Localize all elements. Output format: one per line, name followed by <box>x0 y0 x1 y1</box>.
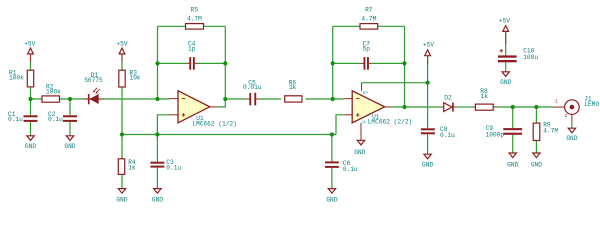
capacitor C8 <box>421 126 455 139</box>
resistor R1 <box>9 70 34 87</box>
wire C6 bottom to ground <box>331 168 333 189</box>
wire R8 to J1 <box>497 106 553 108</box>
svg-text:2: 2 <box>565 113 568 119</box>
resistor R4 <box>118 159 136 175</box>
svg-text:GND: GND <box>566 135 577 142</box>
ground C3 <box>152 189 163 204</box>
capacitor C7 <box>363 40 371 69</box>
pin lead C7 right <box>369 62 372 64</box>
svg-text:GND: GND <box>354 149 365 156</box>
junction node bias R4 <box>120 132 124 136</box>
svg-text:1k: 1k <box>128 165 136 172</box>
junction node C7 right <box>402 61 406 65</box>
svg-text:1k: 1k <box>289 84 297 91</box>
resistor R6 <box>285 79 302 102</box>
svg-text:0.1u: 0.1u <box>166 165 181 172</box>
pin lead U1B V+ <box>361 83 363 91</box>
capacitor C6 <box>325 160 358 173</box>
wire C4 left <box>158 62 187 64</box>
ground C8 <box>422 154 433 168</box>
svg-text:R7: R7 <box>365 6 373 13</box>
wire V+ supply horizontal <box>362 82 428 84</box>
wire feedback 2 right vertical <box>404 26 406 107</box>
capacitor C4 <box>188 40 196 69</box>
resistor R3 <box>119 70 141 87</box>
pin lead C7 left <box>361 62 364 64</box>
wire C9 bottom to ground <box>512 135 514 153</box>
svg-text:GND: GND <box>116 196 127 203</box>
pin lead D1 anode <box>84 98 89 100</box>
svg-text:GND: GND <box>422 162 433 169</box>
pin lead R8 right <box>493 106 497 108</box>
wire C3 bottom to ground <box>156 168 158 189</box>
wire feedback 2 top <box>333 25 405 27</box>
ground C9 <box>507 153 518 169</box>
power +5V symbol 2 <box>116 40 127 62</box>
junction node C2 tap <box>68 97 72 101</box>
pin lead U1A non-inverting <box>169 114 178 116</box>
resistor R9 <box>533 122 558 141</box>
wire D2 to R8 <box>457 106 472 108</box>
resistor R2 <box>42 83 61 102</box>
wire node to C9 top <box>512 107 514 128</box>
wire C7 right <box>372 62 405 64</box>
svg-text:100k: 100k <box>46 88 61 95</box>
pin lead D2 anode <box>439 106 443 108</box>
wire +5V to R1 top <box>30 54 32 70</box>
svg-text:R5: R5 <box>191 6 199 13</box>
wire feedback 1 right vertical <box>224 26 226 99</box>
pin lead C5 right <box>256 98 259 100</box>
connector J1 <box>555 96 599 119</box>
svg-text:4.7M: 4.7M <box>543 127 558 134</box>
junction node U1A inverting input <box>155 97 159 101</box>
wire +5V arrow to supply node <box>427 56 429 83</box>
wire node to C2 top <box>69 99 71 115</box>
junction node C4 left <box>155 61 159 65</box>
capacitor C1 <box>8 111 38 123</box>
wire +5V arrow to C10 top <box>505 32 507 55</box>
wire supply node down to C8 <box>427 83 429 129</box>
svg-text:LMC662 (1/2): LMC662 (1/2) <box>192 120 237 127</box>
svg-text:GND: GND <box>64 143 75 150</box>
junction node bias C6 <box>330 132 334 136</box>
svg-text:GND: GND <box>531 162 542 169</box>
svg-text:100k: 100k <box>9 75 24 82</box>
pin lead J1 pin 1 <box>554 106 565 108</box>
wire R3 bottom down to R4 top <box>121 87 123 159</box>
ground C1 <box>25 136 36 150</box>
svg-text:V+: V+ <box>363 90 369 96</box>
power +5V symbol 3 <box>423 42 434 64</box>
junction node U1A output feedback <box>223 97 227 101</box>
svg-text:100u: 100u <box>523 54 538 61</box>
svg-text:LEMO: LEMO <box>584 101 599 108</box>
pin lead U1A inverting <box>169 98 178 100</box>
svg-text:0.1u: 0.1u <box>48 116 63 123</box>
power +5V symbol 1 <box>24 40 35 62</box>
svg-text:+5V: +5V <box>423 42 434 49</box>
pin lead D2 cathode <box>452 106 456 108</box>
junction node C9 tap <box>511 105 515 109</box>
photodiode D1 <box>84 72 103 104</box>
pin lead C4 right <box>195 62 198 64</box>
wire +5V to R3 top <box>121 54 123 70</box>
power +5V symbol 4 <box>499 17 510 44</box>
svg-text:0.1u: 0.1u <box>8 116 23 123</box>
ground C6 <box>326 189 337 204</box>
wire U1A output up to node <box>217 99 225 107</box>
wire R6 to U1B inverting node <box>306 98 345 100</box>
pin lead U1B V- <box>360 123 362 141</box>
capacitor C2 <box>48 111 77 123</box>
svg-text:GND: GND <box>152 196 163 203</box>
pin lead U1B non-inverting <box>344 114 352 116</box>
wire main line photodiode to U1A inverting input <box>31 98 170 100</box>
junction node U1B output feedback <box>402 105 406 109</box>
pin lead U1B output <box>385 106 392 108</box>
resistor R8 <box>475 88 493 110</box>
capacitor C9 <box>486 125 522 138</box>
pin lead U1A output <box>210 106 217 108</box>
wire feedback 1 top <box>158 25 226 27</box>
pin lead C5 left <box>246 98 249 100</box>
op-amp U1 unit B <box>352 90 412 126</box>
svg-text:1p: 1p <box>188 45 196 52</box>
wire output node to C5 <box>225 98 246 100</box>
wire C8 bottom to ground <box>427 134 429 154</box>
junction node +5V C8 V+ <box>426 81 430 85</box>
wire feedback 1 left vertical <box>157 26 159 99</box>
wire J1 shield to ground <box>571 121 573 128</box>
svg-text:+5V: +5V <box>499 17 510 24</box>
wire C5 to R6 <box>260 98 282 100</box>
pin lead D1 cathode <box>99 98 104 100</box>
wire C2 bottom to ground <box>69 122 71 136</box>
wire bias end up to U1B non-inverting input <box>336 115 344 135</box>
junction node C7 left <box>331 61 335 65</box>
pin lead C4 left <box>187 62 190 64</box>
svg-text:+5V: +5V <box>24 40 35 47</box>
junction node R9 tap <box>534 105 538 109</box>
svg-text:4.7M: 4.7M <box>361 16 376 23</box>
junction node U1B inverting input <box>331 97 335 101</box>
svg-text:GND: GND <box>25 143 36 150</box>
ground C2 <box>64 136 75 150</box>
svg-text:GND: GND <box>326 196 337 203</box>
ground R9 <box>531 153 542 169</box>
wire bias node to C3 top <box>156 135 158 162</box>
svg-text:5p: 5p <box>363 45 371 52</box>
svg-text:GND: GND <box>500 79 511 86</box>
wire R4 bottom to ground <box>121 174 123 188</box>
wire feedback 2 left vertical <box>332 26 334 99</box>
svg-text:GND: GND <box>507 162 518 169</box>
junction node bias C3 <box>155 132 159 136</box>
wire U1B output to D2 <box>392 106 439 108</box>
ground U1B V- <box>354 140 365 156</box>
svg-text:+5V: +5V <box>116 40 127 47</box>
wire R9 bottom to ground <box>535 141 537 153</box>
pin lead J1 pin 2 <box>571 114 573 121</box>
ground R4 <box>116 189 127 204</box>
svg-text:0.1u: 0.1u <box>343 166 358 173</box>
svg-text:1: 1 <box>555 99 558 105</box>
svg-text:1000p: 1000p <box>486 131 505 138</box>
wire R1 bottom to C1 top through node <box>30 87 32 115</box>
pin lead U1B inverting <box>344 98 352 100</box>
capacitor C5 <box>243 79 262 105</box>
wire bias node to C6 top <box>331 135 333 162</box>
pin lead R8 left <box>471 106 475 108</box>
ground C10 <box>500 72 511 86</box>
wire bias line <box>122 134 336 136</box>
svg-text:10k: 10k <box>130 75 141 82</box>
ground J1 <box>566 128 577 142</box>
wire C7 left <box>333 62 361 64</box>
diode D2 <box>444 94 454 111</box>
svg-text:4.7M: 4.7M <box>187 16 202 23</box>
junction node R1 C1 R2 <box>28 97 32 101</box>
svg-text:0.1u: 0.1u <box>440 132 455 139</box>
junction node C4 right <box>223 61 227 65</box>
resistor R7 <box>360 6 378 29</box>
svg-text:S6775: S6775 <box>84 77 103 84</box>
op-amp U1 unit A <box>178 91 237 128</box>
resistor R5 <box>186 6 204 29</box>
svg-text:1k: 1k <box>481 93 489 100</box>
wire C10 bottom to ground <box>505 62 507 71</box>
svg-text:LMC662 (2/2): LMC662 (2/2) <box>368 119 413 126</box>
wire node to R9 top <box>535 107 537 123</box>
capacitor C10 polarized <box>498 48 538 63</box>
wire bias to U1A non-inverting input <box>157 115 169 135</box>
wire C1 bottom to ground <box>30 122 32 136</box>
svg-text:D2: D2 <box>444 94 452 101</box>
capacitor C3 <box>150 159 181 172</box>
wire C4 right <box>198 62 226 64</box>
svg-text:0.01u: 0.01u <box>243 84 262 91</box>
